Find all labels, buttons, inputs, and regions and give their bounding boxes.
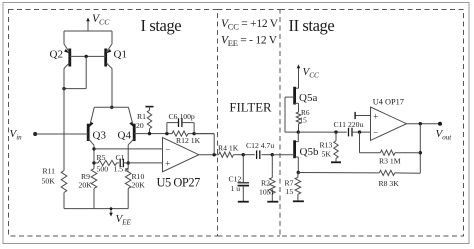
svg-text:R13: R13 [320, 141, 333, 150]
Vout terminal [438, 122, 442, 126]
svg-text:R11: R11 [43, 167, 56, 176]
resistor R10 [125, 169, 131, 189]
node R5 left [92, 161, 95, 164]
wire U5 output [199, 154, 219, 156]
wire R8 row [298, 172, 379, 174]
svg-text:+: + [165, 159, 170, 169]
svg-text:20K: 20K [79, 181, 93, 190]
transistor Q2 [68, 49, 71, 67]
svg-text:−: − [373, 127, 378, 137]
transistor Q3 [87, 124, 90, 141]
resistor R2 10M shunt [271, 155, 273, 178]
wire node1 to C12 series [243, 154, 255, 156]
svg-text:R12 1K: R12 1K [176, 136, 201, 145]
svg-text:Q5a: Q5a [299, 92, 317, 104]
resistor R1 [145, 106, 153, 108]
node U4 inverting input [358, 130, 361, 133]
node R1 bottom [148, 132, 151, 135]
svg-text:Q5b: Q5b [300, 146, 319, 158]
wire base tie down to mirror collector [85, 56, 87, 88]
capacitor C12 4.7u [256, 150, 258, 159]
wire - input down to R3 [359, 132, 361, 153]
node Q5b source [297, 171, 300, 174]
resistor R7 [295, 177, 301, 194]
wire Vee rail [64, 208, 128, 210]
svg-text:5K: 5K [322, 150, 332, 159]
svg-text:R2: R2 [261, 179, 270, 188]
node Q2 collector [62, 87, 65, 90]
capacitor C11 [348, 128, 350, 137]
svg-text:Q4: Q4 [118, 130, 132, 142]
node R12 left [165, 132, 168, 135]
transistor Q1 [104, 49, 107, 67]
top rail wire [64, 30, 112, 32]
svg-text:15: 15 [286, 187, 294, 196]
wire junction to C11 [298, 131, 347, 133]
wire rail right down [111, 31, 113, 44]
U4 + input wire and terminal bar [355, 115, 370, 117]
resistor R11 [61, 171, 67, 193]
svg-text:20: 20 [136, 121, 144, 130]
svg-text:Q1: Q1 [114, 49, 127, 61]
svg-text:C12 4.7u: C12 4.7u [246, 141, 274, 150]
resistor R9 [91, 169, 97, 189]
transistor Q5b [297, 132, 299, 142]
svg-text:C11 220u: C11 220u [334, 120, 364, 129]
node diff pair tail [110, 106, 113, 109]
wire Q2 collector / bias down [63, 69, 65, 171]
resistor R3 [380, 150, 395, 155]
wire U4 output [407, 123, 441, 125]
node Q5a/Q5b junction [297, 130, 300, 133]
node filter 1 [242, 153, 245, 156]
wire Q5a gate feedback [284, 97, 286, 132]
ground under R13 [331, 161, 341, 163]
svg-text:10M: 10M [259, 188, 274, 197]
wire Q4 collector [128, 139, 134, 145]
svg-text:Q3: Q3 [93, 130, 107, 142]
wire tail bar [94, 106, 128, 108]
wire tail to Q3 emitter [90, 107, 95, 126]
Vee symbol [110, 209, 112, 215]
svg-text:20K: 20K [132, 181, 146, 190]
node Q3 collector to opamp [92, 147, 95, 150]
svg-text:−: − [165, 144, 170, 154]
svg-text:R4 1K: R4 1K [218, 144, 239, 153]
capacitor C1 [119, 159, 121, 168]
node U5 output [213, 153, 216, 156]
ground under R2 [267, 201, 278, 203]
Vcc symbol stage II [298, 66, 300, 78]
op-amp U4 OP17 [371, 107, 407, 140]
Vcc symbol stage I [87, 19, 89, 31]
svg-text:+: + [373, 111, 378, 121]
svg-text:C6 100p: C6 100p [169, 112, 195, 121]
svg-text:15: 15 [300, 116, 308, 125]
wire Vin to Q3 base [35, 133, 88, 135]
svg-text:R8 3K: R8 3K [379, 179, 400, 188]
wire filter to Q5b gate [272, 154, 293, 156]
II stage dashed box [280, 10, 464, 237]
wire feedback up from output [213, 134, 215, 155]
svg-text:I stage: I stage [141, 16, 182, 35]
capacitor C12 1u shunt [242, 155, 244, 183]
node R13 top [334, 130, 337, 133]
capacitor C6 [166, 123, 168, 134]
svg-text:Q2: Q2 [50, 49, 63, 61]
Vin terminal [33, 132, 37, 136]
wire Q4 base to feedback [134, 133, 172, 135]
wire base tie Q1-Q2 [70, 55, 106, 57]
svg-text:50K: 50K [42, 177, 56, 186]
resistor R12 [172, 131, 188, 136]
resistor R6 [296, 112, 300, 124]
svg-text:C12: C12 [229, 175, 242, 184]
node U4 output [419, 122, 422, 125]
transistor Q5a [298, 78, 300, 88]
resistor R13 [334, 141, 338, 159]
node R3 right [419, 151, 422, 154]
svg-text:1 u: 1 u [231, 184, 241, 193]
node filter 2 [271, 153, 274, 156]
resistor R4 [219, 152, 234, 157]
wire Q1 collector down to tail [111, 69, 113, 108]
svg-text:R1: R1 [137, 112, 146, 121]
resistor R8 [379, 170, 394, 175]
resistor R5 [94, 162, 98, 164]
svg-text:R5: R5 [97, 153, 106, 162]
wire Q4 coll node to U5 + input [128, 162, 162, 164]
ground under R7 [293, 200, 304, 202]
svg-text:R3 1M: R3 1M [379, 157, 401, 166]
wire tail to Q4 emitter [128, 107, 133, 126]
wire feedback column [419, 124, 421, 174]
op-amp U5 OP27 [163, 138, 199, 172]
node C1 right / + input [127, 161, 130, 164]
wire Q3 coll to U5 inverting input [94, 148, 163, 150]
ground under C12 [238, 201, 249, 203]
svg-text:C1: C1 [116, 153, 125, 162]
svg-text:500: 500 [97, 165, 109, 174]
svg-text:U5 OP27: U5 OP27 [157, 175, 201, 189]
svg-text:FILTER: FILTER [229, 101, 272, 115]
svg-text:U4 OP17: U4 OP17 [373, 98, 404, 107]
transistor Q4 [133, 124, 136, 141]
node base tie [85, 55, 88, 58]
svg-text:II stage: II stage [289, 16, 335, 35]
node R12 right [192, 132, 195, 135]
wire rail left down [63, 31, 65, 44]
wire Q3 collector [88, 139, 94, 146]
